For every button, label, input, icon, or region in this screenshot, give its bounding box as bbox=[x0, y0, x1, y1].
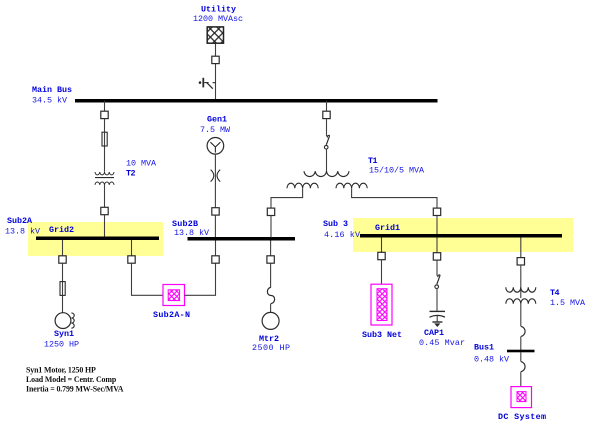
wire CB to Syn1 bbox=[62, 263, 64, 313]
LV breaker arc (below Bus1) bbox=[521, 362, 525, 372]
svg-text:Gen1: Gen1 bbox=[207, 115, 227, 125]
wire CB down and right to Sub2A-N bbox=[132, 263, 164, 295]
svg-text:4.16 kV: 4.16 kV bbox=[324, 230, 360, 240]
generator Gen1 bbox=[207, 138, 224, 155]
wire Bus1 to breaker arc bbox=[520, 352, 522, 361]
bus Sub2A bbox=[36, 237, 159, 241]
svg-text:1200 MVAsc: 1200 MVAsc bbox=[193, 14, 243, 24]
svg-text:T2: T2 bbox=[126, 169, 136, 179]
circuit breaker CB-Sub2B-left bbox=[212, 256, 219, 263]
svg-text:Sub3 Net: Sub3 Net bbox=[362, 330, 402, 340]
circuit breaker CB-Mtr2 bbox=[267, 256, 274, 263]
contactor on Mtr2 feed bbox=[267, 287, 274, 303]
svg-text:1250 HP: 1250 HP bbox=[44, 340, 79, 350]
svg-text:Grid1: Grid1 bbox=[375, 223, 400, 233]
wire CB to Sub2A bus bbox=[104, 215, 106, 237]
wire CB to contactor bbox=[270, 263, 272, 287]
bus Grid1 (Sub 3) bbox=[360, 234, 562, 238]
transformer T1 primary winding bbox=[304, 171, 349, 176]
wire fuse to CAP1 bbox=[436, 288, 438, 311]
wire Gen1 to CB bbox=[214, 154, 216, 208]
svg-text:Syn1: Syn1 bbox=[54, 329, 74, 339]
composite network Sub3 Net bbox=[371, 284, 392, 325]
fuse switch on CAP1 feed bbox=[435, 275, 440, 289]
circuit breaker CB-T1-leftsec bbox=[267, 208, 274, 215]
svg-text:T4: T4 bbox=[550, 288, 560, 298]
svg-text:10 MVA: 10 MVA bbox=[126, 159, 157, 169]
wire CB to Grid1 bus bbox=[436, 216, 438, 235]
circuit breaker CB-Gen1 bbox=[212, 208, 219, 215]
svg-text:CAP1: CAP1 bbox=[424, 328, 444, 338]
wire CB to Sub3 Net bbox=[381, 260, 383, 285]
wire Sub2A to CB-Syn1 bbox=[62, 240, 64, 256]
wire CB to Sub2B bus bbox=[270, 216, 272, 238]
yellow highlight Grid1 bbox=[353, 218, 573, 252]
transformer T1 left secondary winding bbox=[287, 183, 318, 188]
svg-text:0.48 kV: 0.48 kV bbox=[474, 354, 509, 364]
yellow highlight Grid2 bbox=[28, 222, 163, 256]
wire CB to Sub2B bus bbox=[215, 241, 217, 256]
bus Bus1 bbox=[507, 350, 535, 353]
wire Sub2A-N right and up to CB bbox=[185, 263, 216, 295]
svg-text:15/10/5 MVA: 15/10/5 MVA bbox=[369, 166, 425, 176]
synchronous motor Syn1 bbox=[55, 313, 74, 329]
wire Utility to CB bbox=[215, 43, 217, 56]
circuit breaker CB-T2-sec bbox=[101, 207, 108, 214]
svg-text:Bus1: Bus1 bbox=[474, 342, 494, 352]
svg-text:13.8 kV: 13.8 kV bbox=[174, 228, 209, 238]
wire T1 left secondary to CB bbox=[271, 188, 303, 208]
wire CB to fuse bbox=[326, 119, 328, 137]
svg-text:Main Bus: Main Bus bbox=[32, 85, 72, 95]
wire arc to Bus1 bbox=[520, 336, 522, 350]
circuit breaker CB-T4 bbox=[517, 258, 524, 265]
wire Grid1 to CB-T4 bbox=[520, 238, 522, 258]
circuit breaker CB-Sub2A-right bbox=[128, 256, 135, 263]
svg-text:Inertia = 0.799 MW-Sec/MVA: Inertia = 0.799 MW-Sec/MVA bbox=[26, 384, 124, 393]
wire CB to fuse to T2 bbox=[104, 119, 106, 172]
wire T1 right secondary to CB bbox=[352, 188, 437, 208]
composite network DC System bbox=[511, 387, 532, 408]
svg-text:T1: T1 bbox=[368, 156, 378, 166]
bus Main Bus bbox=[75, 99, 438, 103]
wire fuse to T1 primary bbox=[326, 149, 328, 172]
circuit breaker CB-Syn1 bbox=[59, 256, 66, 263]
wire CB to fuse bbox=[436, 260, 438, 276]
svg-text:13.8 kV: 13.8 kV bbox=[5, 226, 40, 236]
composite network Sub2A-N bbox=[163, 285, 185, 306]
svg-text:DC System: DC System bbox=[498, 412, 546, 422]
circuit breaker CB-CAP1 bbox=[433, 253, 440, 260]
bus Sub2B bbox=[188, 237, 296, 241]
wire contactor to Mtr2 bbox=[270, 304, 272, 313]
transformer T2 bbox=[95, 172, 114, 185]
transformer T4 bbox=[506, 287, 536, 304]
wire Sub2B to CB-Mtr2 bbox=[270, 241, 272, 257]
svg-text:Sub 3: Sub 3 bbox=[323, 219, 348, 229]
svg-text:2500 HP: 2500 HP bbox=[252, 343, 290, 353]
circuit breaker CB-T1 bbox=[323, 111, 330, 118]
utility source Utility bbox=[207, 27, 223, 43]
wire CB to Sub2B bus bbox=[214, 215, 216, 237]
wire Grid1 to CB-Sub3Net bbox=[381, 238, 383, 253]
svg-text:34.5 kV: 34.5 kV bbox=[32, 95, 67, 105]
wire T4 to breaker arc bbox=[520, 304, 522, 327]
wire CB to Main Bus bbox=[215, 64, 217, 100]
induction motor Mtr2 bbox=[262, 312, 279, 329]
circuit breaker CB-T1-rightsec bbox=[433, 208, 440, 215]
svg-text:0.45 Mvar: 0.45 Mvar bbox=[419, 338, 465, 348]
wire Sub2A to CB (right branch) bbox=[131, 240, 133, 256]
wire Main Bus to CB-T2 bbox=[104, 101, 106, 111]
disconnect switch near Utility bbox=[199, 78, 216, 89]
wire Grid1 to CB-CAP1 bbox=[436, 238, 438, 253]
circuit breaker CB-Sub3Net bbox=[378, 252, 385, 259]
fuse F-T2 bbox=[102, 132, 107, 146]
svg-text:Sub2A: Sub2A bbox=[7, 216, 33, 226]
fuse switch on T1 feed bbox=[324, 135, 329, 149]
svg-text:1.5 MVA: 1.5 MVA bbox=[550, 298, 586, 308]
svg-text:Sub2A-N: Sub2A-N bbox=[153, 310, 190, 320]
transformer T1 right secondary winding bbox=[336, 183, 367, 188]
wire T2 to CB bbox=[104, 185, 106, 208]
fuse F-Syn1 bbox=[60, 282, 65, 296]
wire CB to T4 bbox=[520, 265, 522, 298]
capacitor CAP1 bbox=[430, 311, 446, 327]
annotation text block bbox=[26, 365, 124, 393]
circuit breaker CB-Utility bbox=[212, 56, 219, 63]
decoupling )( on Gen1 feed bbox=[211, 170, 221, 182]
wire arc to DC System bbox=[520, 372, 522, 387]
svg-text:7.5 MW: 7.5 MW bbox=[200, 125, 231, 135]
svg-text:Grid2: Grid2 bbox=[49, 225, 74, 235]
svg-text:Syn1 Motor, 1250 HP: Syn1 Motor, 1250 HP bbox=[26, 365, 96, 374]
circuit breaker CB-T2-prim bbox=[101, 111, 108, 118]
svg-text:Load Model = Centr. Comp: Load Model = Centr. Comp bbox=[26, 375, 117, 384]
wire Main Bus to CB-T1 bbox=[326, 101, 328, 111]
LV breaker arc (above Bus1) bbox=[521, 326, 525, 336]
